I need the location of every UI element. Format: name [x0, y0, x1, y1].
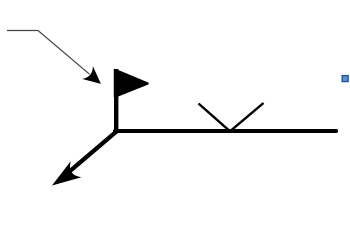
selection handle	[342, 76, 348, 82]
flag	[115, 70, 148, 97]
baseline	[115, 129, 336, 133]
vector arrowhead	[52, 161, 81, 185]
annotation leader line	[7, 31, 90, 75]
vector shaft	[58, 131, 117, 181]
annotation arrowhead	[82, 66, 101, 84]
check mark V	[199, 103, 264, 131]
flag pole	[114, 69, 118, 131]
